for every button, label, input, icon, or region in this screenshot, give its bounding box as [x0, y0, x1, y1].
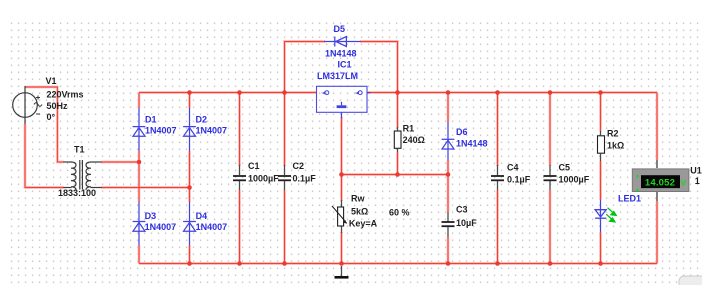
svg-text:1833:100: 1833:100 — [58, 188, 96, 198]
svg-text:10µF: 10µF — [456, 218, 477, 228]
svg-text:V1: V1 — [46, 76, 57, 86]
svg-text:5kΩ: 5kΩ — [351, 207, 368, 217]
ground — [335, 266, 349, 277]
scrollbar corner — [679, 276, 702, 285]
svg-text:240Ω: 240Ω — [403, 135, 425, 145]
node: secondary top / D1-D3 junction — [137, 160, 142, 165]
capacitor C4 — [491, 165, 504, 190]
svg-text:1N4007: 1N4007 — [196, 222, 228, 232]
node: top rail at C1 — [237, 90, 242, 95]
svg-text:C4: C4 — [507, 163, 519, 173]
node: secondary bottom / D2-D4 junction — [187, 185, 192, 190]
svg-text:C5: C5 — [559, 163, 571, 173]
svg-text:LM317LM: LM317LM — [317, 71, 358, 81]
svg-text:IC1: IC1 — [338, 60, 352, 70]
potentiometer Rw — [332, 200, 347, 233]
diode D1 — [133, 108, 146, 151]
node: top rail at D6 — [446, 90, 451, 95]
node: ADJ rail at IC1/Rw — [339, 172, 344, 177]
node: top rail at R2 — [598, 90, 603, 95]
transformer T1 — [64, 160, 102, 190]
svg-text:0.1µF: 0.1µF — [507, 175, 531, 185]
svg-text:C2: C2 — [293, 161, 305, 171]
AC source V1 — [13, 86, 42, 124]
resistor R2 — [598, 131, 605, 161]
node: bottom rail at C5 — [548, 261, 553, 266]
diode D5 — [324, 37, 361, 47]
node: ADJ rail at D6/C3 — [446, 172, 451, 177]
diode D3 — [133, 202, 146, 245]
svg-text:50Hz: 50Hz — [47, 101, 69, 111]
node: bottom rail at D4 — [187, 261, 192, 266]
node: top rail at R1/D5 — [395, 90, 400, 95]
diode D4 — [183, 202, 196, 245]
svg-text:1: 1 — [695, 176, 700, 186]
svg-text:V: V — [681, 179, 687, 188]
node: bottom rail at LED1 — [598, 261, 603, 266]
svg-text:1N4007: 1N4007 — [145, 222, 177, 232]
regulator IC1 LM317LM — [317, 86, 371, 118]
svg-text:U1: U1 — [690, 166, 702, 176]
svg-text:+: + — [636, 174, 640, 181]
node: top rail at C4 — [495, 90, 500, 95]
capacitor C5 — [544, 165, 557, 190]
resistor R1 — [394, 127, 401, 152]
node: top rail at C5 — [548, 90, 553, 95]
svg-text:1N4007: 1N4007 — [196, 126, 228, 136]
LED arrows — [606, 208, 616, 222]
svg-text:T1: T1 — [74, 145, 85, 155]
svg-text:Key=A: Key=A — [349, 219, 378, 229]
node: bottom rail at C3 — [446, 261, 451, 266]
svg-text:R1: R1 — [403, 124, 415, 134]
svg-text:1kΩ: 1kΩ — [607, 141, 624, 151]
svg-text:D5: D5 — [334, 24, 346, 34]
svg-text:R2: R2 — [607, 129, 619, 139]
svg-text:60 %: 60 % — [389, 208, 410, 218]
svg-text:1000µF: 1000µF — [248, 174, 279, 184]
svg-text:1N4148: 1N4148 — [325, 49, 357, 59]
node: bottom rail at Rw/ground — [339, 261, 344, 266]
svg-text:D3: D3 — [145, 211, 157, 221]
svg-text:0.1µF: 0.1µF — [293, 174, 317, 184]
node: top rail at C2/D5 — [282, 90, 287, 95]
svg-text:1N4007: 1N4007 — [145, 126, 177, 136]
node: bottom rail at C2 — [282, 261, 287, 266]
capacitor C2 — [278, 165, 291, 190]
svg-text:D1: D1 — [145, 115, 157, 125]
svg-text:0°: 0° — [47, 112, 56, 122]
svg-text:1000µF: 1000µF — [559, 175, 590, 185]
svg-text:D6: D6 — [456, 127, 468, 137]
multimeter U1 — [632, 160, 689, 201]
node: ADJ rail at R1 — [395, 172, 400, 177]
svg-text:C3: C3 — [456, 205, 468, 215]
svg-text:D4: D4 — [196, 211, 208, 221]
svg-text:D2: D2 — [196, 115, 208, 125]
svg-text:1N4148: 1N4148 — [456, 139, 488, 149]
capacitor C3 — [442, 212, 455, 237]
diode D2 — [183, 108, 196, 151]
LED1 — [595, 200, 616, 232]
node: bottom rail at C4 — [495, 261, 500, 266]
node: top rail at D2 — [187, 90, 192, 95]
svg-text:Rw: Rw — [351, 194, 365, 204]
svg-text:C1: C1 — [248, 161, 260, 171]
capacitor C1 — [233, 165, 246, 190]
svg-text:220Vrms: 220Vrms — [47, 90, 84, 100]
svg-text:14.052: 14.052 — [645, 177, 675, 188]
diode D6 — [442, 122, 455, 160]
svg-text:LED1: LED1 — [618, 194, 641, 204]
node: bottom rail at C1 — [237, 261, 242, 266]
